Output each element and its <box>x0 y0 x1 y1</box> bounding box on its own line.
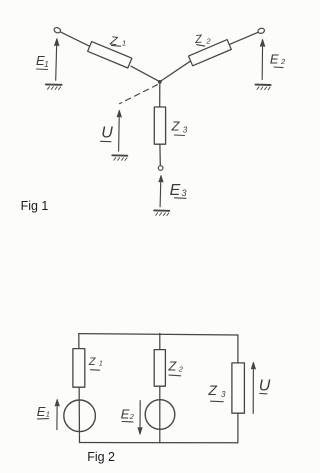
svg-text:1: 1 <box>44 60 48 69</box>
node terminal (above E3, Fig 1) <box>158 166 163 171</box>
wire terminal1 to Z1 <box>60 32 90 47</box>
label Z1 (Fig 1) <box>109 33 127 48</box>
impedance Z1 (Fig 2) <box>73 349 85 388</box>
terminal 1 (top-left, Fig 1) <box>53 27 61 34</box>
source E1 circle (Fig 2) <box>64 400 96 432</box>
ground (E2, Fig 1) <box>256 85 271 90</box>
wire middle branch (Fig 2) <box>159 333 161 442</box>
svg-text:U: U <box>101 125 113 142</box>
svg-text:E: E <box>270 52 279 67</box>
source arrow E2 (Fig 1) <box>260 40 265 80</box>
svg-text:Fig 1: Fig 1 <box>21 199 49 213</box>
svg-text:3: 3 <box>221 390 226 399</box>
source arrow E1 (Fig 2) <box>55 400 59 430</box>
wire center node to Z3 <box>159 82 161 107</box>
impedance Z2 (Fig 2) <box>154 350 165 387</box>
svg-text:3: 3 <box>183 126 188 135</box>
svg-text:Z: Z <box>193 33 203 46</box>
label E3 (Fig 1) <box>170 182 187 199</box>
label U (Fig 1) <box>101 125 114 142</box>
terminal 2 (top-right, Fig 1) <box>257 27 265 34</box>
svg-text:E: E <box>37 404 46 419</box>
label Z3 (Fig 2) <box>207 382 226 402</box>
label Z2 (Fig 1) <box>193 33 211 46</box>
svg-text:Z: Z <box>88 356 97 368</box>
source arrow E1 (Fig 1) <box>55 39 60 81</box>
source arrow E3 (Fig 1) <box>159 176 163 207</box>
label E1 (Fig 2) <box>37 404 50 419</box>
svg-text:Z: Z <box>171 119 181 134</box>
wire dashed (center node to U, Fig 1) <box>120 85 158 104</box>
source E2 circle (Fig 2) <box>145 400 175 430</box>
wire Z2 to terminal 2 <box>229 32 258 44</box>
source arrow E2 (Fig 2, points down) <box>138 401 142 435</box>
svg-text:E: E <box>121 406 130 421</box>
label Z3 (Fig 1) <box>171 119 188 136</box>
wire bottom (Fig 2) <box>80 442 238 444</box>
ground (E3, Fig 1) <box>154 210 169 215</box>
svg-text:3: 3 <box>182 188 187 198</box>
wire Z1 to center node <box>131 66 160 81</box>
svg-text:1: 1 <box>99 361 103 368</box>
voltage arrow U (Fig 2) <box>251 362 255 413</box>
svg-text:2: 2 <box>129 412 135 421</box>
wire right branch (Fig 2) <box>237 335 239 443</box>
svg-text:1: 1 <box>46 409 50 418</box>
wire center node to Z2 <box>160 61 190 81</box>
ground (E1, Fig 1) <box>46 84 62 89</box>
ground (U, Fig 1) <box>112 155 127 160</box>
label U (Fig 2) <box>259 378 271 395</box>
node center (star point) <box>158 80 162 84</box>
voltage arrow U (Fig 1) <box>117 110 121 151</box>
label E1 (Fig 1) <box>36 53 49 70</box>
label Z1 (Fig 2) <box>88 356 103 370</box>
svg-text:1: 1 <box>122 38 126 47</box>
wire top (Fig 2) <box>79 334 238 335</box>
wire left branch (Fig 2) <box>78 334 81 443</box>
wire Z3 to node E3 <box>159 144 161 165</box>
impedance Z1 (Fig 1) <box>88 42 132 68</box>
impedance Z2 (Fig 1) <box>188 40 231 66</box>
svg-text:2: 2 <box>178 364 184 373</box>
label Z2 (Fig 2) <box>167 359 183 376</box>
svg-text:E: E <box>170 182 181 199</box>
svg-text:2: 2 <box>205 36 211 45</box>
impedance Z3 (Fig 1) <box>154 107 165 144</box>
label E2 (Fig 2) <box>121 406 135 422</box>
label E2 (Fig 1) <box>270 52 286 68</box>
svg-text:Z: Z <box>167 359 177 374</box>
svg-text:Fig 2: Fig 2 <box>87 450 115 464</box>
impedance Z3 (Fig 2) <box>232 363 245 413</box>
svg-text:U: U <box>259 378 271 395</box>
svg-text:Z: Z <box>207 382 217 398</box>
svg-text:2: 2 <box>280 57 286 66</box>
